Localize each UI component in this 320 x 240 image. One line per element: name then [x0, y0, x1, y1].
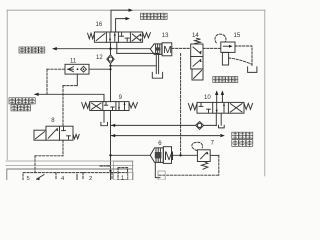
- svg-text:14: 14: [192, 33, 199, 39]
- svg-text:13: 13: [162, 33, 169, 39]
- wire dashed to valve 8: [63, 86, 77, 127]
- wire to pre-plasticizing motor: [34, 93, 104, 102]
- wire dashed valve8 down: [35, 140, 63, 172]
- wire pipe down: [155, 53, 157, 73]
- valve 10 directional valve: [188, 102, 252, 113]
- border frame: [7, 10, 265, 176]
- wire pump6 output: [109, 154, 197, 156]
- wire line B: [117, 53, 159, 73]
- throttle-check valve 11: [65, 64, 89, 74]
- svg-text:12: 12: [96, 55, 103, 61]
- label to-clamping-manifold line2: [232, 140, 239, 147]
- svg-text:M: M: [163, 44, 172, 56]
- svg-text:9: 9: [119, 95, 123, 101]
- svg-text:M: M: [164, 149, 174, 163]
- tank under valve 10: [219, 125, 225, 128]
- valve 14 (vertical 2-position valve): [191, 38, 203, 80]
- wire pump6 suction: [155, 162, 160, 177]
- wire dashed pilot loop 7: [192, 142, 203, 150]
- wire valve16 port A up to injection: [111, 9, 133, 33]
- wire dashed pilot loop 15: [215, 34, 226, 43]
- wire line E to clamping manifold: [111, 134, 225, 137]
- pump 6 (motor-pump unit): [150, 147, 174, 164]
- wire relief 7 out + enclosure dashes: [159, 155, 219, 175]
- svg-text:16: 16: [96, 22, 103, 28]
- pump 13 (motor-pump unit): [150, 43, 172, 56]
- svg-text:10: 10: [204, 95, 211, 101]
- wire dashed left of 11: [47, 68, 65, 70]
- svg-text:5: 5: [27, 176, 30, 180]
- manifold inner light box: [114, 161, 133, 180]
- label to-injection-cylinder: [141, 13, 147, 19]
- label to-preplast-screw-motor line2: [11, 105, 17, 111]
- wire dashed 13 to 14: [172, 47, 191, 49]
- wire valve10 ports up to nozzle: [215, 90, 224, 102]
- wire valve16 port B up to injection: [116, 17, 130, 32]
- wire dashed 14 to 15: [203, 47, 221, 49]
- svg-text:7: 7: [211, 140, 215, 146]
- wire dash-dot into manifold: [100, 165, 111, 167]
- svg-text:15: 15: [234, 33, 241, 39]
- wire valve10 bottom ports: [216, 113, 221, 125]
- svg-text:6: 6: [158, 141, 162, 147]
- wire line D with check valve: [111, 124, 217, 127]
- valve 8 (2-position valve): [34, 126, 79, 140]
- valve 16 directional valve: [88, 32, 151, 42]
- valve 15 (pilot cartridge): [221, 42, 235, 65]
- label to-clamping-manifold line1: [232, 132, 239, 139]
- label to-ejector-cylinder: [19, 47, 25, 53]
- tank under valve 9: [101, 122, 108, 125]
- wire valve9 T to tank: [103, 111, 105, 123]
- label to-nozzle-cylinder: [213, 77, 219, 83]
- svg-text:2: 2: [89, 176, 92, 180]
- check valve 12: [107, 55, 114, 64]
- valve 9 directional valve: [82, 102, 138, 111]
- label to-preplast-screw-motor line1: [9, 98, 15, 104]
- wire dashed 11 pilot down: [46, 69, 48, 94]
- wire to ejector cylinder (line A): [52, 42, 150, 54]
- wire dashed pilot drop (x=180): [180, 54, 182, 156]
- svg-text:4: 4: [61, 176, 65, 180]
- relief valve 7: [197, 150, 210, 169]
- wire dashed 15 drain: [229, 46, 252, 66]
- wire line C: [111, 65, 157, 67]
- tank for 15: [248, 67, 257, 73]
- wire 11 to main line: [89, 68, 112, 70]
- svg-text:1: 1: [121, 176, 124, 180]
- svg-text:8: 8: [51, 118, 55, 124]
- tank under pump 13: [152, 72, 162, 78]
- lower manifold frame: [7, 161, 133, 180]
- bottom separator rules: [6, 161, 133, 165]
- manifold dashed box: [23, 168, 128, 180]
- svg-text:11: 11: [70, 58, 77, 64]
- manifold right light box: [158, 171, 165, 180]
- main pressure wire (vertical): [110, 64, 112, 181]
- check valve (under valve 10): [196, 122, 204, 130]
- wire 11 bottom port: [76, 74, 78, 86]
